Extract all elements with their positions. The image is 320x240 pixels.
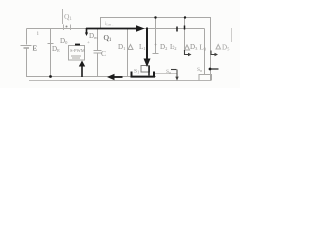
junction dot node b <box>184 16 186 18</box>
switch gate stub <box>62 9 64 24</box>
wire capacitor branch upper <box>97 29 99 51</box>
wire branch D1 vertical <box>127 29 129 77</box>
bold rail-left arrow <box>112 76 123 78</box>
wire branch cell1 output vertical <box>155 18 157 54</box>
capacitor C plates <box>94 50 102 52</box>
junction dot bottom <box>49 75 52 78</box>
wire bottom rail 2 (outer return) <box>29 80 60 82</box>
wire branch cell3 vertical <box>204 29 206 76</box>
svg-text:+: + <box>87 41 90 46</box>
wire far-right faded vertical <box>231 28 233 42</box>
load box cell1 inner <box>141 66 150 73</box>
battery E <box>21 45 32 47</box>
text labels <box>33 12 231 75</box>
switch contact dot <box>66 26 68 28</box>
Dm stub arrow down <box>86 28 88 33</box>
diode D5 triangle <box>216 45 221 50</box>
diode D3 triangle <box>185 45 190 50</box>
black stub node x177 <box>176 27 178 32</box>
control box top tick <box>75 44 80 46</box>
wire branch D_E vertical <box>50 29 52 77</box>
wire box1 to cell2 bottom <box>155 73 177 75</box>
wire left rail lower <box>26 49 28 78</box>
svg-text:Sn: Sn <box>166 69 171 75</box>
cell2 corner arrow right <box>185 50 189 55</box>
bold bus segment with right arrow <box>86 28 137 30</box>
svg-text:E: E <box>33 44 38 53</box>
junction dot node a <box>154 16 156 18</box>
wire bottom rail 1 <box>26 76 156 78</box>
svg-text:+: + <box>172 45 175 50</box>
wire left rail upper <box>26 29 28 45</box>
bold connector into load <box>148 66 150 76</box>
svg-text:S1: S1 <box>134 69 139 75</box>
diode DE tick <box>48 43 54 45</box>
bottom-right node dot and dash <box>209 68 212 71</box>
bottom mid dash and down arrow <box>171 69 176 71</box>
bold L1 vertical with down arrow <box>146 28 148 60</box>
wire capacitor branch lower <box>97 53 99 77</box>
black bold current-path overlay <box>49 16 218 80</box>
wire main bus <box>27 28 205 30</box>
switch Q1 ticks <box>63 25 65 31</box>
wire top loop line <box>101 18 211 82</box>
S-PWM control box <box>69 46 85 61</box>
svg-text:Sn: Sn <box>197 67 202 73</box>
cell3 corner arrow right <box>211 51 215 55</box>
load box dark bottom <box>132 72 155 77</box>
sense box bottom-right <box>199 75 212 81</box>
svg-text:S-PWM: S-PWM <box>70 48 85 53</box>
up arrow into control box <box>81 66 83 77</box>
wire branch cell2 vertical <box>184 18 186 54</box>
diode D1 triangle <box>128 45 133 50</box>
small down arrow cell2 <box>184 26 186 30</box>
svg-text:C: C <box>101 49 106 58</box>
